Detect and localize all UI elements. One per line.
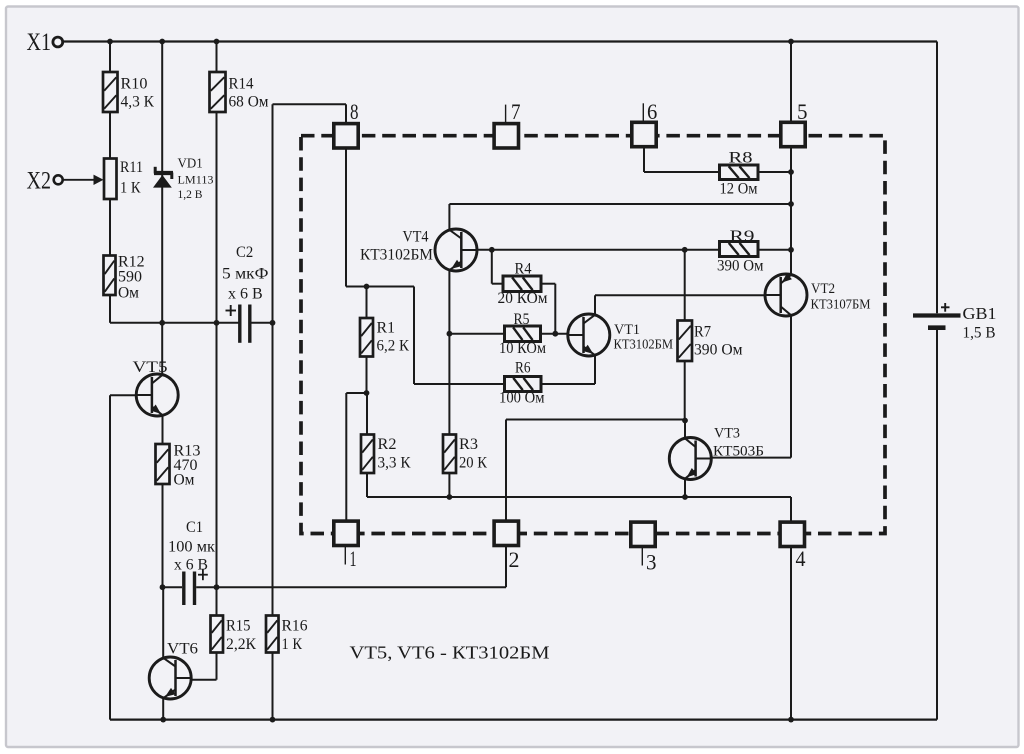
svg-text:1 К: 1 К — [282, 636, 303, 653]
resistor R8 — [720, 165, 759, 180]
wire X2 arrow to R11 wiper — [63, 179, 96, 181]
wire VT1 emitter to R6 — [594, 355, 596, 385]
svg-text:R10: R10 — [121, 76, 148, 93]
svg-text:R8: R8 — [729, 150, 753, 167]
pin 5 — [781, 122, 805, 146]
svg-text:8: 8 — [350, 99, 359, 124]
svg-text:Ом: Ом — [118, 285, 139, 302]
wire pin 4 bottom to bus — [790, 546, 792, 720]
wire pin 6 to R8 — [643, 147, 645, 173]
svg-text:R2: R2 — [378, 436, 397, 453]
resistor R1 — [360, 318, 373, 357]
svg-text:КТ3102БМ: КТ3102БМ — [360, 247, 433, 264]
svg-text:20 К: 20 К — [459, 455, 488, 472]
pin 8 — [334, 124, 358, 148]
wire pin 2 bottom to C1 — [505, 546, 507, 588]
junction dots — [107, 39, 113, 45]
svg-text:3,3 К: 3,3 К — [378, 455, 412, 472]
svg-text:R4: R4 — [515, 261, 532, 278]
svg-text:VT5, VT6 - КТ3102БМ: VT5, VT6 - КТ3102БМ — [350, 643, 551, 663]
resistor R2 — [361, 435, 374, 474]
pin 2 — [494, 521, 518, 545]
wire pin 5 column — [790, 42, 792, 124]
svg-text:R3: R3 — [459, 436, 478, 453]
wire pin 2 top to VT3 node — [505, 420, 507, 522]
wire VT3 collector — [684, 421, 686, 439]
battery GB1 label — [941, 306, 950, 308]
wire VT6 base to R15 — [190, 679, 217, 681]
wire bottom ground bus — [110, 718, 937, 720]
svg-text:C1: C1 — [186, 519, 203, 536]
svg-text:GB1: GB1 — [963, 304, 997, 323]
wire R9 right — [758, 249, 791, 251]
terminal X1 — [53, 37, 63, 47]
wire VD1 column / VT5 collector — [161, 42, 163, 376]
wire battery negative drop — [936, 330, 938, 720]
svg-text:390 Ом: 390 Ом — [694, 342, 743, 359]
resistor R12 — [104, 256, 116, 296]
svg-text:10 КОм: 10 КОм — [499, 340, 546, 357]
svg-text:20 КОм: 20 КОм — [498, 290, 548, 307]
svg-text:2: 2 — [509, 547, 520, 572]
wire R7 column — [684, 250, 686, 321]
svg-text:R15: R15 — [226, 618, 251, 635]
capacitor C2 — [238, 305, 241, 343]
svg-text:4: 4 — [796, 546, 806, 571]
svg-text:КТ503Б: КТ503Б — [713, 444, 764, 460]
terminal X2 — [54, 175, 63, 184]
wire top supply bus y=41.5 — [64, 40, 938, 42]
svg-text:VT3: VT3 — [714, 426, 740, 442]
resistor R3 — [443, 435, 456, 474]
svg-text:X2: X2 — [27, 168, 52, 195]
svg-text:X1: X1 — [27, 29, 52, 56]
wire bus to pin 4 top — [790, 497, 792, 522]
resistor R4 — [503, 276, 541, 292]
wire VT4 collector up and right — [448, 204, 450, 230]
svg-text:2,2К: 2,2К — [226, 636, 257, 653]
resistor R6 — [505, 377, 542, 392]
pin 3 — [641, 547, 643, 566]
svg-text:LM113: LM113 — [178, 173, 214, 187]
resistor R5 — [505, 326, 541, 342]
svg-text:7: 7 — [511, 99, 521, 124]
svg-text:1,5 В: 1,5 В — [963, 325, 996, 342]
battery GB1 — [913, 313, 961, 317]
wire node C to VT1 base — [541, 333, 569, 335]
svg-text:1: 1 — [350, 546, 357, 571]
pin 1 — [344, 546, 346, 565]
zener diode VD1 — [154, 171, 173, 175]
wire battery positive drop — [936, 42, 938, 314]
svg-text:6,2 К: 6,2 К — [377, 338, 410, 355]
svg-text:VT4: VT4 — [403, 229, 429, 246]
svg-text:VT2: VT2 — [811, 281, 835, 297]
svg-text:6: 6 — [647, 99, 657, 124]
wire R13 to C1 node — [162, 484, 164, 587]
wire R8 right — [758, 171, 791, 173]
svg-text:5: 5 — [797, 99, 808, 124]
wire VT3 emitter — [684, 479, 686, 497]
svg-text:100 Ом: 100 Ом — [499, 390, 545, 407]
svg-text:1,2 В: 1,2 В — [178, 187, 203, 201]
wire C1 left — [163, 586, 183, 588]
wire R10 column — [109, 42, 111, 73]
svg-text:5 мкФ: 5 мкФ — [222, 266, 269, 283]
svg-text:R6: R6 — [515, 360, 531, 377]
resistor R14 — [210, 72, 226, 112]
wire R12 bottom to node — [109, 295, 111, 323]
capacitor C1 — [182, 572, 185, 606]
svg-text:4,3 К: 4,3 К — [121, 94, 155, 111]
wire R11-R12 — [109, 199, 111, 256]
transistor VT5 — [136, 374, 178, 416]
wire C2 node to pin 8 — [273, 103, 347, 105]
wire C2 right to R16 column — [272, 104, 274, 615]
pin 6 — [642, 103, 644, 122]
svg-text:R5: R5 — [514, 311, 530, 328]
transistor VT1 — [568, 314, 610, 356]
resistor R7 — [678, 321, 693, 362]
wire R4 left drop — [491, 250, 493, 284]
wire R2 column — [366, 393, 368, 435]
potentiometer R11 — [104, 159, 117, 200]
svg-text:VT5: VT5 — [133, 359, 168, 376]
wire R1 top — [366, 287, 368, 319]
transistor VT3 — [669, 438, 711, 480]
wire R14 column — [216, 42, 218, 73]
wire R4 right to node C — [541, 283, 555, 285]
dashed box DA1 chip boundary — [301, 136, 885, 534]
svg-text:68 Ом: 68 Ом — [229, 94, 269, 111]
pin 4 — [780, 522, 804, 546]
svg-text:R1: R1 — [377, 320, 396, 337]
pin 7 — [505, 105, 507, 124]
wire VT3 base to VT2 collector — [711, 457, 792, 459]
svg-text:R9: R9 — [730, 228, 755, 245]
wire node B to pin 1 — [346, 392, 366, 394]
svg-text:КТ3107БМ: КТ3107БМ — [811, 297, 871, 312]
svg-text:590: 590 — [118, 269, 142, 286]
svg-text:R11: R11 — [120, 159, 143, 176]
transistor VT4 — [435, 229, 477, 271]
wire node A down to R6 — [413, 287, 415, 385]
resistor R9 — [720, 242, 759, 257]
wire VT6 collector — [162, 587, 164, 658]
svg-text:Ом: Ом — [174, 472, 195, 489]
svg-text:КТ3102БМ: КТ3102БМ — [614, 337, 674, 352]
wire VT5 base to bottom bus — [109, 395, 111, 719]
svg-text:VT6: VT6 — [167, 641, 198, 658]
resistor R10 — [103, 72, 118, 112]
wire VT4 emitter / R3 column — [448, 270, 450, 435]
svg-text:х 6 В: х 6 В — [228, 286, 263, 303]
wire internal ground bus y=497 — [367, 496, 791, 498]
svg-text:R14: R14 — [229, 76, 254, 93]
wire R16 bottom to bus — [272, 653, 274, 720]
svg-text:100 мк: 100 мк — [168, 539, 215, 556]
transistor VT2 pnp — [765, 274, 807, 316]
svg-text:C2: C2 — [236, 244, 253, 261]
svg-text:R16: R16 — [282, 618, 308, 635]
wire pin 8 down to node A — [345, 148, 347, 287]
resistor R16 — [266, 616, 279, 653]
wire VT1 collector to VT2 base — [594, 295, 596, 315]
svg-text:3: 3 — [646, 550, 657, 575]
transistor VT6 — [149, 657, 191, 699]
wire VT6 emitter to bus — [162, 698, 164, 720]
wire R1 bottom to node B — [366, 357, 368, 394]
svg-text:VD1: VD1 — [178, 157, 203, 172]
resistor R15 — [211, 616, 224, 653]
svg-text:1 К: 1 К — [120, 180, 141, 197]
resistor R13 — [156, 444, 170, 484]
svg-text:R7: R7 — [694, 324, 711, 341]
svg-text:390 Ом: 390 Ом — [717, 258, 764, 275]
svg-text:12 Ом: 12 Ом — [720, 181, 758, 198]
wire R5 left — [449, 333, 504, 335]
wire VT4 base line to R9 — [475, 249, 720, 251]
wire VT5 emitter to R13 — [162, 415, 164, 445]
